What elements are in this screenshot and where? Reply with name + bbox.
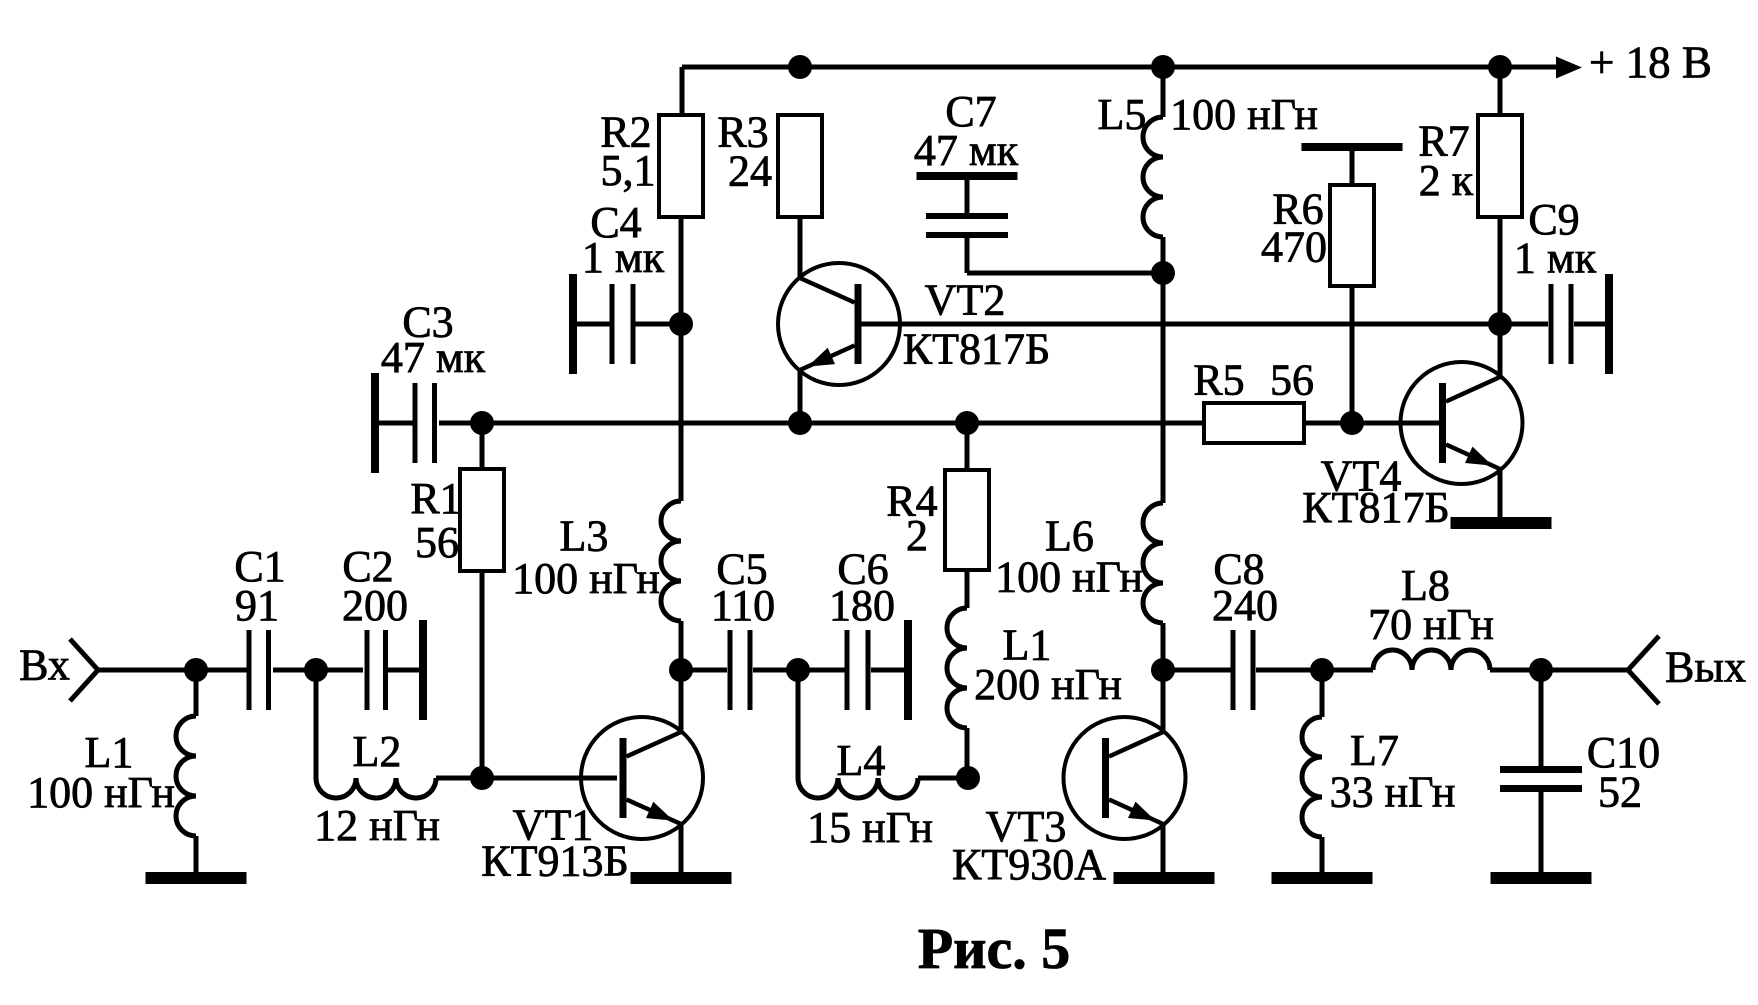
transistor VT3 emitter diagonal	[1109, 800, 1163, 825]
wire: L6 bottom to collector node	[1161, 623, 1166, 670]
svg-text:1 мк: 1 мк	[1514, 234, 1597, 283]
wire: R1 bottom to VT1 base node	[480, 571, 485, 778]
wire: VT3 collector up to node	[1161, 670, 1166, 732]
wire: +18V supply rail	[682, 65, 1556, 70]
svg-text:100 нГн: 100 нГн	[27, 768, 175, 817]
capacitor C2 right plate	[383, 630, 388, 710]
svg-text:Рис. 5: Рис. 5	[918, 916, 1071, 981]
wire: VT1 collector up to signal node	[679, 670, 684, 732]
capacitor C5 right plate	[748, 630, 753, 710]
node: L6 / VT3 collector / C8 junction	[1151, 658, 1175, 682]
node: C5 / C6 / L4 junction	[786, 658, 810, 682]
svg-text:R1: R1	[410, 474, 461, 523]
capacitor C5 left plate	[728, 630, 733, 710]
svg-text:180: 180	[829, 581, 895, 630]
transistor VT3 body circle	[1064, 717, 1186, 839]
wire: L5 node down to L6	[1161, 273, 1166, 503]
ground: VT3 emitter	[1114, 872, 1215, 884]
wire: VT1 emitter to ground	[679, 824, 684, 874]
svg-text:240: 240	[1212, 581, 1278, 630]
wire: bus down to R4	[965, 423, 970, 470]
transistor VT1 base bar	[620, 738, 627, 818]
wire: R5 right to VT4 base	[1304, 421, 1440, 426]
svg-text:L2: L2	[353, 727, 402, 776]
capacitor C8 left plate	[1231, 630, 1236, 710]
ground: VT4 emitter	[1451, 517, 1552, 529]
supply arrow +18V	[1556, 57, 1582, 79]
wire: C7 bottom plate down	[965, 238, 970, 273]
node: rail junction to L5	[1151, 55, 1175, 79]
wire: L4 to VT3 base node	[918, 776, 968, 781]
ground: C10	[1491, 872, 1592, 884]
wire: node down to C10	[1539, 670, 1544, 766]
svg-text:5,1: 5,1	[601, 146, 656, 195]
wire: rail corner down to R2	[680, 67, 685, 115]
svg-text:12 нГн: 12 нГн	[314, 801, 440, 850]
capacitor C6 open-end bar	[904, 620, 912, 720]
wire: input to C1	[98, 668, 247, 673]
wire: C2 right plate to bar	[387, 668, 420, 673]
node: C4 / R2 / L3 junction	[669, 312, 693, 336]
capacitor C6 left plate	[845, 630, 850, 710]
node: bus / VT2 emitter junction	[788, 411, 812, 435]
svg-text:24: 24	[728, 147, 772, 196]
capacitor C6 right plate	[866, 630, 871, 710]
transistor VT2 emitter diagonal	[800, 346, 855, 371]
wire: R7 bottom to C9 node	[1498, 217, 1503, 324]
svg-text:L5: L5	[1098, 90, 1147, 139]
ground: L7	[1272, 872, 1373, 884]
capacitor C7 top plate	[926, 213, 1008, 219]
wire: C4 bar to left plate	[573, 322, 610, 327]
wire: C7 to L5 bottom node	[967, 271, 1163, 276]
svg-text:15 нГн: 15 нГн	[807, 803, 933, 852]
transistor VT1 body circle	[581, 717, 703, 839]
transistor VT2 emitter arrow	[808, 348, 835, 367]
node: bus / R1 junction	[470, 411, 494, 435]
inductor L5 coil	[1143, 117, 1163, 237]
capacitor C3 open-end bar	[371, 373, 379, 473]
ground: L1	[146, 872, 247, 884]
ground: VT1 emitter	[631, 872, 732, 884]
wire: L8 to output node	[1490, 668, 1541, 673]
wire: node down to L7	[1320, 670, 1325, 717]
node: L5 / C7 junction	[1151, 261, 1175, 285]
svg-text:100 нГн: 100 нГн	[995, 553, 1143, 602]
svg-text:47 мк: 47 мк	[914, 126, 1019, 175]
capacitor C3 right plate	[432, 383, 437, 463]
wire: node down to L4	[796, 670, 801, 778]
node: C1 / C2 / L2 junction	[304, 658, 328, 682]
node: output junction	[1529, 658, 1553, 682]
capacitor C4 left plate	[610, 284, 615, 364]
transistor VT1 collector diagonal	[627, 732, 682, 757]
svg-text:Вх: Вх	[19, 641, 70, 690]
svg-text:1 мк: 1 мк	[582, 233, 665, 282]
wire: R3 bottom to VT2 collector	[798, 217, 803, 277]
node: R5 / R6 / VT4 base junction	[1340, 411, 1364, 435]
node: input / L1 junction	[184, 658, 208, 682]
svg-text:110: 110	[711, 581, 775, 630]
svg-text:100 нГн: 100 нГн	[1170, 90, 1318, 139]
wire: VT4 emitter down to ground	[1498, 469, 1503, 517]
transistor VT4 collector diagonal	[1446, 377, 1500, 402]
wire: node to C6	[798, 668, 845, 673]
svg-text:52: 52	[1598, 768, 1642, 817]
wire: VT2 emitter down to bus	[798, 370, 803, 423]
svg-text:КТ930А: КТ930А	[952, 840, 1106, 889]
wire: bias bus C3 to R5	[482, 421, 1204, 426]
wire: node down to L1	[194, 670, 199, 716]
capacitor C1 left plate	[247, 630, 252, 710]
wire: node down to L2	[314, 670, 319, 778]
wire: C9 right plate to bar	[1574, 322, 1606, 327]
wire: base node to VT1	[482, 776, 617, 781]
inductor L7 coil	[1302, 717, 1322, 837]
resistor R2	[659, 115, 703, 217]
wire: L2 to VT1 base node	[436, 776, 482, 781]
wire: node to C8	[1163, 668, 1231, 673]
capacitor C8 right plate	[1251, 630, 1256, 710]
wire: R4 bottom to L1 coil	[965, 570, 970, 608]
node: rail junction to R3	[788, 55, 812, 79]
node: VT3 base junction	[956, 766, 980, 790]
input terminal Вх chevron	[70, 639, 98, 701]
svg-text:200 нГн: 200 нГн	[974, 660, 1122, 709]
inductor L1 (200 нГн) coil	[947, 608, 967, 728]
capacitor C10 top plate	[1500, 766, 1582, 773]
capacitor C9 open-end bar	[1605, 274, 1613, 374]
transistor VT1 emitter diagonal	[627, 800, 682, 825]
transistor VT2 body circle	[778, 263, 900, 385]
svg-text:Вых: Вых	[1665, 643, 1746, 692]
wire: node to L8	[1322, 668, 1373, 673]
inductor L2 coil	[316, 778, 436, 798]
transistor VT3 collector diagonal	[1109, 732, 1163, 757]
wire: C10 to ground	[1539, 792, 1544, 874]
capacitor C7 bottom plate	[926, 232, 1008, 238]
node: L3 / VT1 collector / C5 junction	[669, 658, 693, 682]
capacitor C4 open-end bar	[569, 274, 577, 374]
svg-text:КТ817Б: КТ817Б	[903, 325, 1051, 374]
svg-text:56: 56	[1270, 356, 1314, 405]
svg-text:33 нГн: 33 нГн	[1330, 768, 1456, 817]
capacitor C3 left plate	[413, 383, 418, 463]
output terminal Вых chevron	[1628, 636, 1659, 704]
capacitor C7 open-end bar	[917, 172, 1018, 180]
wire: rail down to R7	[1498, 67, 1503, 115]
resistor R7	[1478, 115, 1522, 217]
svg-text:2 к: 2 к	[1419, 156, 1474, 205]
capacitor C9 right plate	[1569, 284, 1574, 364]
wire: C6 right plate to bar	[871, 668, 904, 673]
capacitor C2 left plate	[365, 630, 370, 710]
wire: L3 bottom to signal node	[679, 621, 684, 670]
wire: bus down to R1	[480, 423, 485, 469]
svg-text:КТ913Б: КТ913Б	[481, 837, 629, 886]
svg-text:+ 18 В: + 18 В	[1589, 38, 1712, 88]
transistor VT2 base bar	[855, 284, 862, 364]
wire: L1 bottom to ground	[194, 836, 199, 874]
capacitor C10 bottom plate	[1500, 785, 1582, 792]
resistor R5	[1204, 403, 1304, 443]
svg-text:R5: R5	[1193, 356, 1244, 405]
svg-text:2: 2	[906, 511, 928, 560]
wire: C7 bar to top plate	[965, 180, 970, 214]
svg-text:L4: L4	[837, 736, 886, 785]
svg-text:70 нГн: 70 нГн	[1368, 600, 1494, 649]
resistor R1	[460, 469, 504, 571]
svg-text:91: 91	[235, 581, 279, 630]
wire: VT2 base line to C9 node	[856, 322, 1548, 327]
wire: C8 to L8 node	[1256, 668, 1322, 673]
transistor VT4 base bar	[1439, 383, 1446, 463]
transistor VT3 base bar	[1102, 738, 1109, 818]
node: rail junction to R7	[1488, 55, 1512, 79]
svg-text:470: 470	[1261, 223, 1327, 272]
wire: rail down to L5	[1161, 67, 1166, 117]
resistor R4	[945, 470, 989, 570]
resistor R6	[1330, 185, 1374, 286]
capacitor C2 open-end bar	[419, 620, 427, 720]
node: C9 / R7 / VT4 collector junction	[1488, 312, 1512, 336]
inductor L1 coil	[176, 716, 196, 836]
transistor VT4 emitter arrow	[1465, 447, 1492, 466]
inductor L4 coil	[798, 778, 918, 798]
transistor VT4 body circle	[1401, 362, 1523, 484]
transistor VT2 collector diagonal	[800, 278, 855, 303]
svg-text:100 нГн: 100 нГн	[512, 554, 660, 603]
wire: C3 bar to left plate	[375, 421, 414, 426]
svg-text:VT2: VT2	[925, 276, 1006, 325]
svg-text:47 мк: 47 мк	[381, 333, 486, 382]
wire: L5 bottom to node	[1161, 237, 1166, 273]
wire: R6 bottom to bus node	[1350, 286, 1355, 423]
svg-text:КТ817Б: КТ817Б	[1302, 483, 1450, 532]
svg-text:56: 56	[415, 518, 459, 567]
wire: C4 node down to L3	[679, 324, 684, 501]
node: C8 / L7 / L8 junction	[1310, 658, 1334, 682]
wire: VT3 emitter to ground	[1161, 824, 1166, 874]
wire: C4 right plate to node	[635, 322, 681, 327]
transistor VT1 emitter arrow	[646, 802, 673, 821]
transistor VT3 emitter arrow	[1128, 802, 1155, 821]
inductor L8 coil	[1373, 650, 1490, 670]
wire: C3 right plate to bus	[439, 421, 482, 426]
resistor R6 open-end bar	[1302, 143, 1403, 151]
wire: node to C5	[681, 668, 727, 673]
wire: L1 coil to VT3 base node	[965, 728, 970, 778]
node: VT1 base junction	[470, 766, 494, 790]
inductor L3 coil	[661, 501, 681, 621]
wire: C5 to C6 node	[753, 668, 798, 673]
wire: L7 to ground	[1320, 837, 1325, 874]
wire: C1 to C2	[273, 668, 363, 673]
inductor L6 coil	[1143, 503, 1163, 623]
capacitor C1 right plate	[266, 630, 271, 710]
capacitor C9 left plate	[1549, 284, 1554, 364]
resistor R3	[778, 115, 822, 217]
wire: node to output terminal	[1541, 668, 1628, 673]
node: bus / R4 junction	[955, 411, 979, 435]
transistor VT4 emitter diagonal	[1446, 445, 1500, 470]
wire: R6 bar to body	[1350, 151, 1355, 185]
wire: VT4 collector up to C9 node	[1498, 324, 1503, 377]
svg-text:200: 200	[342, 581, 408, 630]
capacitor C4 right plate	[631, 284, 636, 364]
wire: R2 bottom to C4 node	[679, 217, 684, 324]
